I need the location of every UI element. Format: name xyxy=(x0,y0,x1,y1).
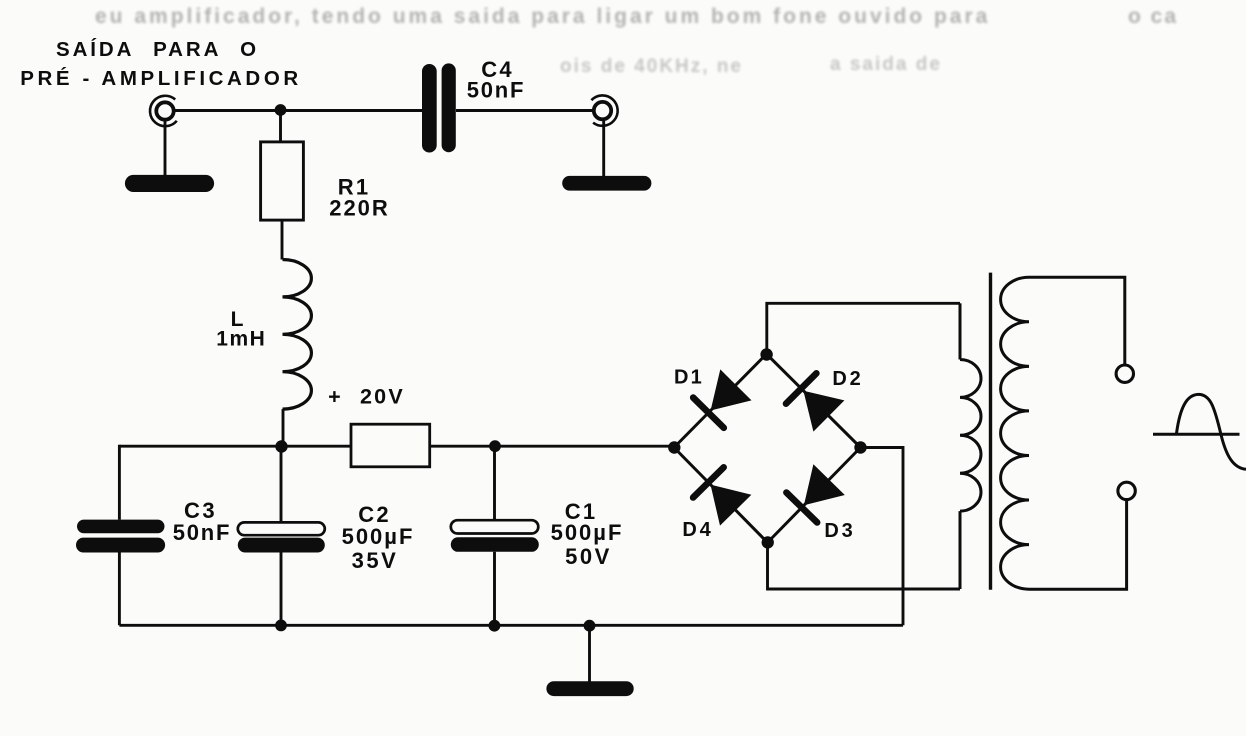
transformer T1 core xyxy=(989,273,992,590)
svg-text:50V: 50V xyxy=(565,544,612,569)
wire top bus left (connector J1 to C4) xyxy=(174,109,422,112)
wire ground stub xyxy=(588,625,591,682)
node bridge top dot xyxy=(760,348,772,360)
svg-text:+ 20V: + 20V xyxy=(328,385,405,409)
svg-text:220R: 220R xyxy=(329,196,390,221)
diode D1 cathode bar xyxy=(693,398,724,428)
node junction dot C1 bottom xyxy=(489,620,501,632)
diode D1 triangle xyxy=(711,369,752,410)
diode D3 cathode bar xyxy=(786,493,817,523)
svg-text:50nF: 50nF xyxy=(467,78,526,103)
connector J2 ring xyxy=(594,102,611,119)
transformer T1 primary winding and leads xyxy=(1001,277,1127,589)
node bridge right dot xyxy=(854,441,866,453)
capacitor C2 plate top (outlined) xyxy=(238,522,325,535)
svg-text:o ca: o ca xyxy=(1128,5,1178,28)
node bridge left dot xyxy=(668,441,680,453)
svg-text:500µF: 500µF xyxy=(342,524,415,549)
wire R1 to inductor L xyxy=(281,220,284,259)
node junction dot C1 top xyxy=(489,440,501,452)
wire +20V bus left segment xyxy=(119,445,351,448)
svg-text:1mH: 1mH xyxy=(216,328,266,351)
wire bottom bus xyxy=(119,624,903,627)
wire +20V bus right segment xyxy=(430,445,675,448)
capacitor C3 plate bottom xyxy=(76,538,165,553)
node junction dot top (R1 tap) xyxy=(275,104,287,116)
wire bridge arm top-right xyxy=(767,354,861,448)
capacitor C3 plate top xyxy=(77,520,165,534)
wire bridge arm bottom-right xyxy=(768,448,861,543)
diode D2 triangle xyxy=(803,391,844,432)
capacitor C1 plate bottom xyxy=(451,537,539,552)
wire J2 to ground xyxy=(602,121,605,178)
ground bar bottom xyxy=(546,681,633,696)
terminal circle top xyxy=(1116,365,1133,382)
diode D4 cathode bar xyxy=(693,467,724,497)
wire C4 to connector J2 xyxy=(456,109,592,112)
svg-text:ois de 40KHz, ne: ois de 40KHz, ne xyxy=(560,56,743,77)
capacitor C2 plate bottom xyxy=(238,538,325,553)
wire bridge bottom to transformer xyxy=(768,543,961,590)
ground bar right xyxy=(562,176,651,191)
wire junction to R1 xyxy=(279,111,282,142)
wire left branch vertical upper (bus to C3) xyxy=(118,445,121,520)
transformer T1 secondary winding xyxy=(960,360,981,512)
svg-text:D2: D2 xyxy=(832,368,863,390)
node bridge bottom dot xyxy=(762,536,774,548)
node junction dot L/bus xyxy=(275,440,287,452)
connector J2 outer arc xyxy=(591,95,617,125)
AC mains line xyxy=(1153,433,1240,436)
diode D4 triangle xyxy=(711,485,752,526)
node junction dot ground stub xyxy=(584,620,596,632)
transformer T1 secondary spine upper xyxy=(959,303,962,359)
wire bridge arm left-bottom xyxy=(674,448,768,543)
wire J1 to ground xyxy=(164,121,167,177)
svg-text:500µF: 500µF xyxy=(551,520,624,545)
faint bleed-through text line 2 xyxy=(560,54,942,77)
wire inductor to +20V bus xyxy=(282,409,285,446)
diode D3 triangle xyxy=(804,464,845,505)
terminal circle bottom xyxy=(1118,482,1135,499)
wire C2 bottom stub xyxy=(280,553,283,626)
capacitor C1 plate top (outlined) xyxy=(451,520,539,533)
svg-text:50nF: 50nF xyxy=(173,520,232,545)
wire C1 top stub xyxy=(493,446,496,520)
wire bridge arm left-top xyxy=(674,354,767,448)
svg-text:D3: D3 xyxy=(824,520,855,542)
svg-text:PRÉ - AMPLIFICADOR: PRÉ - AMPLIFICADOR xyxy=(20,67,302,90)
svg-text:35V: 35V xyxy=(352,548,399,573)
ground bar left xyxy=(125,175,214,192)
wire C2 top stub xyxy=(280,446,283,522)
faint bleed-through text line 1 xyxy=(95,5,1178,28)
capacitor C4 plate 1 xyxy=(422,64,437,153)
node junction dot C2 bottom xyxy=(275,620,287,632)
svg-text:a saida de: a saida de xyxy=(830,54,942,75)
wire C1 bottom stub xyxy=(493,552,496,626)
transformer T1 secondary spine lower xyxy=(959,511,962,589)
fuse box F1 xyxy=(351,424,430,467)
svg-text:D4: D4 xyxy=(682,519,713,541)
AC sine wave xyxy=(1177,394,1246,469)
wire left branch vertical lower (C3 to bottom bus) xyxy=(118,553,121,626)
diode D2 cathode bar xyxy=(786,373,816,403)
connector J1 outer arc xyxy=(150,96,177,126)
inductor L coil xyxy=(283,260,312,410)
capacitor C4 plate 2 xyxy=(442,63,456,152)
connector J1 ring xyxy=(156,102,173,119)
wire bridge top to transformer xyxy=(767,303,960,354)
svg-text:D1: D1 xyxy=(674,367,704,389)
wire bridge right to bottom bus corner xyxy=(861,448,904,626)
svg-text:SAÍDA PARA O: SAÍDA PARA O xyxy=(56,38,259,61)
resistor R1 body xyxy=(261,142,304,220)
svg-text:eu amplificador, tendo uma sai: eu amplificador, tendo uma saida para li… xyxy=(95,5,990,28)
